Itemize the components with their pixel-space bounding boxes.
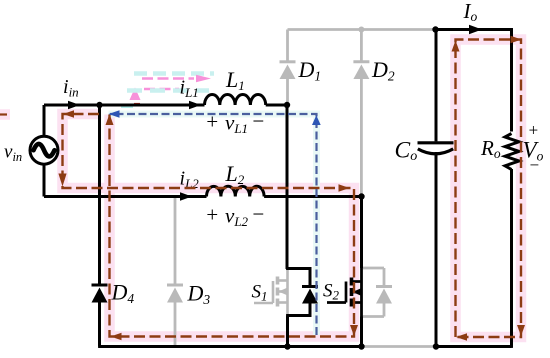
wire L2 to node B — [264, 195, 361, 198]
diode D2 branch upper wire — [360, 30, 363, 63]
cyan highlight halo: freewheeling loop — [109, 114, 317, 335]
faded pink dashed path segment B — [144, 88, 179, 90]
bottom rail black right segment — [436, 345, 512, 348]
node dot S2 source — [358, 343, 364, 349]
left edge pink halo fragment — [0, 109, 10, 120]
diode D2 — [353, 62, 369, 79]
switch S2 body diode (gray) — [376, 287, 392, 304]
arrow i_L1 — [189, 101, 201, 109]
diode D3 branch lower wire — [174, 303, 177, 347]
svg-text:−: − — [529, 156, 540, 175]
diode D2 branch lower wire — [360, 79, 363, 197]
node input dot — [96, 102, 102, 108]
node dot S1 source — [284, 343, 290, 349]
arrow i_in — [68, 101, 80, 109]
bottom gray wire segment — [362, 345, 436, 348]
left edge red dash fragment — [0, 113, 7, 115]
wire S1 source to bottom rail — [286, 316, 289, 347]
wire S2 source to bottom rail — [360, 317, 363, 347]
svg-text:+: + — [205, 203, 219, 227]
svg-text:D4: D4 — [111, 280, 135, 307]
node dot top Co — [432, 26, 438, 32]
faded pink arrow up — [130, 88, 141, 101]
red arrow up through D4 — [106, 114, 114, 125]
node A dot — [284, 102, 290, 108]
diode D1 branch lower wire — [286, 79, 289, 104]
S1 body diode (black, conducting) — [302, 287, 318, 304]
diode D4 — [92, 285, 108, 303]
wire L1 to node A — [266, 104, 287, 107]
wire S2 branch from node B — [360, 197, 363, 269]
svg-text:L1: L1 — [225, 67, 245, 93]
diode D1 branch upper wire — [286, 30, 289, 63]
red dashed input current loop — [63, 114, 355, 337]
svg-text:D2: D2 — [371, 57, 395, 84]
red arrow left at source top — [63, 110, 74, 117]
svg-text:+: + — [528, 120, 539, 139]
svg-text:D1: D1 — [298, 57, 322, 84]
pink highlight halo: output current loop — [456, 40, 522, 338]
svg-text:Ro: Ro — [480, 136, 501, 161]
svg-text:L2: L2 — [225, 161, 245, 187]
wire top left horizontal — [44, 104, 205, 107]
svg-text:iin: iin — [63, 76, 79, 100]
wire D4 branch upper — [98, 105, 101, 285]
top gray rail — [288, 28, 436, 31]
wire S1 body diode top link — [286, 269, 310, 287]
ac source vin circle — [30, 136, 58, 164]
wire S1 branch from node A — [286, 105, 289, 269]
red arrow left on bottom rail — [111, 333, 122, 340]
wire bottom left horizontal — [44, 195, 207, 198]
blue dashed freewheeling path — [110, 114, 317, 335]
pink highlight halo: main input current loop — [63, 114, 355, 337]
arrow i_L2 — [180, 192, 192, 200]
blue arrow left at input node — [109, 110, 120, 117]
resistor Ro — [505, 134, 519, 170]
red arrow right top of output loop — [511, 36, 522, 43]
svg-text:S1: S1 — [252, 282, 268, 304]
wire Ro branch lower — [510, 169, 513, 348]
faded cyan dashed fragment row2 — [127, 88, 209, 93]
inductor L1 — [205, 95, 266, 106]
top rail black segment — [436, 28, 513, 31]
arrow I_o — [469, 25, 482, 34]
blue arrow up through S1 — [312, 115, 321, 125]
wire source bottom lead — [43, 164, 46, 197]
inductor L2 — [207, 186, 265, 196]
gray junction dot on top rail — [358, 27, 364, 33]
svg-text:vL2: vL2 — [225, 204, 249, 230]
red arrow up left of Co loop — [452, 41, 460, 52]
red arrow down right of output loop — [517, 325, 525, 336]
svg-text:vin: vin — [4, 142, 22, 165]
faded cyan dashed band above iL1 label — [134, 71, 214, 76]
cyan fleck on top wire — [121, 105, 133, 108]
wire S1 body diode bottom link — [286, 303, 310, 316]
wire Ro branch upper — [510, 28, 513, 131]
red fleck on top wire — [134, 103, 140, 105]
red arrow down through S2 — [350, 325, 358, 336]
red dashed output current loop — [456, 40, 522, 338]
ac source sine wave — [34, 144, 55, 157]
wire Co branch upper — [435, 30, 438, 142]
svg-text:Co: Co — [395, 138, 418, 165]
wire source top lead — [43, 105, 46, 137]
switch S2 MOSFET symbol (black) — [327, 268, 362, 317]
svg-text:S2: S2 — [323, 281, 340, 303]
node dot Co bottom — [433, 343, 439, 349]
svg-text:iL1: iL1 — [180, 77, 199, 101]
red arrow left bottom of output loop — [456, 333, 467, 340]
svg-text:−: − — [251, 109, 265, 133]
svg-text:D3: D3 — [187, 281, 211, 308]
diode D3 — [167, 285, 183, 303]
faded pink arrow right — [196, 75, 211, 82]
node B dot — [358, 193, 364, 199]
switch S2 body diode branch (gray) — [362, 268, 385, 317]
red arrow right before S2 — [339, 184, 350, 191]
diode D3 branch upper wire — [174, 197, 177, 286]
wire D4 branch lower — [98, 303, 101, 347]
switch S1 MOSFET symbol (gray) — [254, 269, 288, 315]
svg-text:−: − — [251, 202, 265, 226]
red arrow down at source left — [58, 174, 66, 187]
svg-text:Io: Io — [463, 0, 478, 24]
wire Co branch lower — [435, 152, 438, 347]
bottom rail black left segment — [98, 345, 362, 348]
faded pink dashed path segment A — [142, 77, 194, 79]
diode D1 — [280, 62, 296, 79]
capacitor Co — [418, 143, 454, 154]
